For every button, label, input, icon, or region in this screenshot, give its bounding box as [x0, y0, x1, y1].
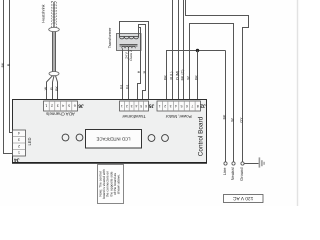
svg-text:2: 2: [164, 104, 166, 108]
svg-text:O (M): O (M): [175, 71, 179, 80]
mounting hole: [62, 134, 69, 141]
svg-text:BK: BK: [55, 86, 59, 91]
svg-text:3: 3: [57, 104, 59, 108]
svg-text:6: 6: [145, 104, 147, 108]
svg-text:R: R: [7, 63, 11, 66]
svg-text:W: W: [44, 86, 48, 90]
svg-text:BL: BL: [125, 84, 129, 88]
svg-text:shown above.: shown above.: [116, 174, 120, 194]
wire BK to J6 pin3: [56, 76, 58, 102]
svg-text:BK: BK: [222, 114, 226, 119]
svg-text:5: 5: [180, 104, 182, 108]
svg-text:4: 4: [175, 104, 177, 108]
wire BK motor pin1: [167, 51, 226, 102]
svg-text:7: 7: [191, 104, 193, 108]
terminal Ground: [241, 162, 244, 165]
core: [120, 44, 138, 46]
svg-text:ADA Channels: ADA Channels: [45, 112, 74, 117]
note box: [98, 165, 124, 204]
wire W pin6 to neutral: [190, 24, 234, 163]
wire O (M): [178, 0, 180, 102]
wire transformer primary right to J5 pin5: [139, 25, 146, 102]
svg-text:Class 2: Class 2: [129, 50, 133, 61]
svg-text:J6: J6: [78, 102, 84, 108]
svg-text:5: 5: [140, 104, 142, 108]
svg-text:1: 1: [159, 104, 161, 108]
svg-text:LED: LED: [27, 137, 32, 145]
connector J2 Power Motor: [157, 101, 201, 111]
svg-text:Power, Motor: Power, Motor: [165, 114, 191, 119]
wire BK left: [4, 0, 13, 154]
svg-text:Line: Line: [222, 167, 227, 175]
svg-text:J4: J4: [14, 156, 20, 162]
LCD interface box: [86, 130, 142, 149]
svg-text:8: 8: [197, 104, 199, 108]
svg-text:5: 5: [68, 104, 70, 108]
wire Ground GY: [186, 0, 249, 162]
svg-text:Heatshrink: Heatshrink: [42, 4, 46, 22]
svg-text:4: 4: [135, 104, 137, 108]
transformer T1: [117, 34, 142, 51]
svg-text:4: 4: [18, 131, 20, 135]
svg-text:W: W: [230, 118, 234, 122]
wire R left: [10, 0, 13, 133]
heatshrink assembly: [49, 2, 60, 32]
connector J4 LED: [13, 130, 26, 156]
secondary coil: [123, 48, 129, 50]
svg-text:BK: BK: [1, 62, 5, 67]
svg-text:LCD INTERFACE: LCD INTERFACE: [96, 136, 130, 141]
svg-text:H: H: [143, 70, 147, 73]
svg-text:Control Board: Control Board: [198, 116, 205, 156]
svg-text:BK: BK: [163, 75, 167, 80]
wire transformer primary left to J5 pin6: [120, 22, 149, 102]
mounting hole: [162, 135, 169, 142]
wire BL secondary left: [122, 50, 124, 101]
svg-text:Ground: Ground: [239, 168, 244, 181]
svg-text:1: 1: [121, 104, 123, 108]
wire transformer branch to J5 pin4: [138, 28, 141, 102]
terminal Line: [224, 162, 227, 165]
page edge: [297, 0, 299, 206]
svg-text:2: 2: [51, 104, 53, 108]
mounting hole: [76, 134, 83, 141]
wire R (L): [172, 0, 174, 102]
svg-text:W: W: [186, 76, 190, 80]
svg-text:BL: BL: [119, 84, 123, 88]
ground symbol: [244, 157, 264, 167]
control board: [12, 100, 207, 163]
wire Line BK: [225, 51, 227, 163]
svg-text:1: 1: [18, 150, 20, 154]
svg-text:R (L): R (L): [169, 72, 173, 80]
mounting hole: [148, 135, 155, 142]
wire BK pin8: [197, 51, 199, 102]
connector J6 ADA Channels: [44, 101, 78, 111]
svg-text:J2: J2: [200, 102, 206, 108]
terminal Neutral: [232, 162, 235, 165]
svg-text:BK: BK: [194, 75, 198, 80]
wire BK (C): [183, 0, 185, 102]
svg-text:2: 2: [126, 104, 128, 108]
svg-text:3: 3: [170, 104, 172, 108]
svg-text:6: 6: [186, 104, 188, 108]
wire R to J6 pin2: [53, 76, 55, 102]
cable tie ellipse: [49, 72, 59, 76]
120 V AC box: [224, 195, 264, 203]
junction dot: [196, 49, 199, 52]
svg-text:Transformer: Transformer: [122, 114, 146, 119]
svg-text:4: 4: [62, 104, 64, 108]
svg-text:J5: J5: [149, 102, 155, 108]
svg-text:BK (C): BK (C): [180, 70, 184, 81]
wire W to J6 pin1: [47, 76, 53, 102]
connector J5 Transformer: [120, 101, 149, 111]
svg-text:Transformer: Transformer: [108, 27, 112, 48]
svg-text:2: 2: [18, 144, 20, 148]
svg-text:R: R: [50, 87, 54, 90]
svg-text:120 V AC: 120 V AC: [233, 195, 254, 201]
wire bundle: [53, 32, 56, 72]
wire BL secondary right: [128, 50, 130, 101]
svg-text:3: 3: [18, 137, 20, 141]
svg-text:3: 3: [131, 104, 133, 108]
svg-text:1: 1: [45, 104, 47, 108]
svg-text:Neutral: Neutral: [230, 167, 235, 180]
svg-text:H: H: [137, 70, 141, 73]
svg-text:GY: GY: [239, 117, 243, 123]
svg-text:6: 6: [74, 104, 76, 108]
primary coil: [120, 34, 139, 37]
